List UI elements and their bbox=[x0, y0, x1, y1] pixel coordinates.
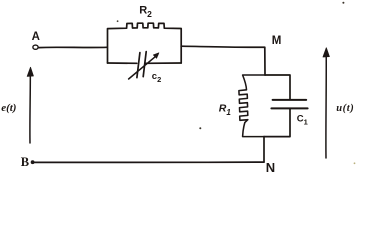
svg-text:B: B bbox=[21, 155, 29, 169]
svg-text:c2: c2 bbox=[152, 71, 161, 84]
svg-text:u(t): u(t) bbox=[336, 103, 354, 114]
svg-text:A: A bbox=[32, 31, 40, 43]
svg-text:M: M bbox=[272, 35, 282, 47]
svg-text:N: N bbox=[266, 160, 275, 175]
svg-text:R2: R2 bbox=[139, 5, 152, 19]
svg-text:R1: R1 bbox=[219, 102, 232, 116]
svg-text:e(t): e(t) bbox=[1, 102, 16, 114]
svg-text:C1: C1 bbox=[297, 114, 308, 127]
